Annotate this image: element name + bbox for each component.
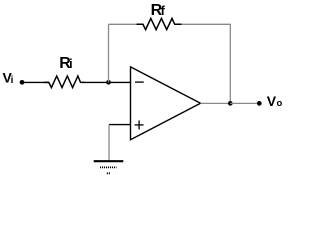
node Vi terminal dot: [20, 80, 25, 85]
resistor Ri: [44, 76, 85, 88]
node Vo terminal dot: [257, 101, 262, 106]
pin minus (inverting input marker): [135, 81, 144, 83]
wire feedback riser (gray, node up): [108, 24, 110, 82]
svg-text:Vo: Vo: [267, 93, 283, 109]
wire op-amp output (gray): [201, 102, 231, 104]
op-amp U1 triangle: [131, 67, 201, 140]
node junction dot at inverting input: [106, 80, 111, 85]
wire feedback top-right segment: [182, 24, 231, 103]
wire Vi to Ri: [23, 81, 49, 83]
node junction dot at output: [228, 101, 233, 106]
wire non-inverting input: [109, 124, 131, 126]
svg-text:Vi: Vi: [3, 69, 14, 86]
resistor Rf: [137, 18, 182, 29]
ground: [94, 160, 124, 162]
pin plus (non-inverting input marker): [135, 124, 144, 126]
wire feedback top-left segment: [109, 23, 139, 25]
wire output to Vo terminal (gray): [230, 102, 259, 104]
svg-text:Rf: Rf: [151, 2, 166, 19]
wire to ground (gray): [108, 125, 110, 161]
svg-text:Ri: Ri: [59, 55, 72, 72]
wire Ri to inverting node: [85, 81, 131, 83]
